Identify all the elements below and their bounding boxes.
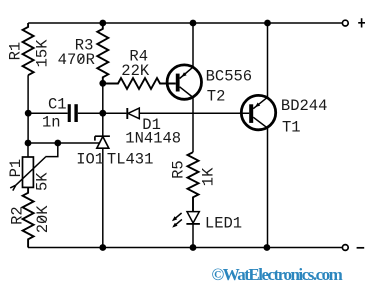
- svg-text:TL431: TL431: [107, 150, 154, 168]
- junction node R3/R4: [99, 80, 106, 87]
- junction node TL431 anode / bottom rail: [99, 244, 106, 251]
- svg-text:BD244: BD244: [281, 97, 328, 115]
- wire P1 wiper connection: [45, 143, 58, 157]
- svg-text:C1: C1: [48, 96, 67, 114]
- shunt regulator IO1 TL431: [95, 113, 110, 247]
- junction node P1 top / REF: [25, 140, 32, 147]
- svg-text:©WatElectronics.com: ©WatElectronics.com: [212, 265, 343, 284]
- junction node R3 top: [99, 20, 106, 27]
- svg-text:470R: 470R: [58, 51, 95, 69]
- svg-text:R2: R2: [8, 206, 26, 225]
- transistor Q T2 BC556: [167, 65, 201, 99]
- terminal positive: [342, 18, 365, 27]
- junction node C1 left: [25, 110, 32, 117]
- wire bottom rail: [28, 247, 342, 249]
- svg-text:R5: R5: [170, 160, 188, 179]
- resistor R5: [188, 152, 199, 211]
- svg-text:T1: T1: [282, 119, 301, 137]
- potentiometer P1: [10, 143, 45, 191]
- resistor R2: [23, 187, 34, 247]
- svg-text:R1: R1: [6, 42, 24, 61]
- LED LED1: [172, 212, 200, 248]
- resistor R3: [97, 23, 108, 83]
- svg-text:BC556: BC556: [206, 68, 253, 86]
- junction node C1/D1/TL431 cathode: [99, 110, 106, 117]
- junction node T2 emitter / top rail: [190, 20, 197, 27]
- svg-text:1N4148: 1N4148: [125, 130, 181, 148]
- svg-text:T2: T2: [207, 88, 226, 106]
- transistor Q T1 BD244: [241, 95, 275, 129]
- wire left rail (C1 node to divider node): [27, 113, 29, 143]
- diode D1: [103, 108, 140, 119]
- junction node T1 emitter / top rail: [264, 20, 271, 27]
- svg-text:5K: 5K: [33, 172, 51, 191]
- wire R3 node to C1/D1 node: [102, 83, 104, 113]
- junction node LED1 cathode / bottom rail: [190, 244, 197, 251]
- wire T1 collector to bottom rail: [267, 128, 269, 247]
- junction node wiper tie: [54, 140, 61, 147]
- resistor R4: [103, 78, 176, 89]
- wire T2 emitter to top rail: [192, 23, 194, 67]
- wire D1 anode to T1 base: [139, 112, 249, 114]
- wire T2 collector to R5: [192, 98, 194, 152]
- svg-text:1K: 1K: [199, 167, 217, 186]
- svg-text:22K: 22K: [121, 62, 150, 80]
- resistor R1: [23, 23, 34, 75]
- junction node T1 collector / bottom rail: [264, 244, 271, 251]
- terminal negative: [342, 245, 364, 251]
- svg-text:15K: 15K: [34, 39, 52, 68]
- wire REF (divider node to TL431 reference): [28, 142, 100, 144]
- wire top rail: [28, 22, 342, 24]
- svg-text:LED1: LED1: [205, 215, 242, 233]
- svg-text:IO1: IO1: [76, 150, 104, 168]
- svg-text:20K: 20K: [34, 205, 52, 234]
- wire T1 emitter to top rail: [267, 23, 269, 97]
- wire left rail (R1 to C1 node): [27, 75, 29, 113]
- capacitor C1: [28, 104, 103, 122]
- svg-text:P1: P1: [7, 159, 25, 178]
- svg-text:1n: 1n: [42, 113, 61, 131]
